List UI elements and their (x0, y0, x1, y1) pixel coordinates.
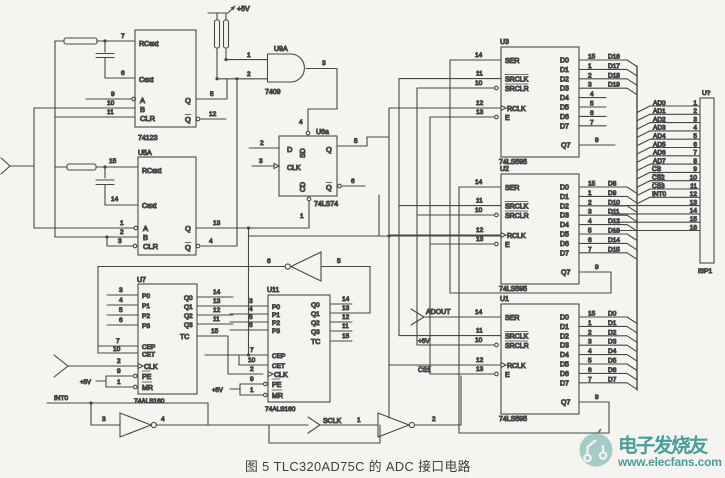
svg-text:D0: D0 (608, 311, 617, 318)
svg-text:14: 14 (111, 196, 119, 203)
svg-text:U9A: U9A (274, 46, 288, 53)
svg-text:12: 12 (342, 314, 350, 321)
svg-text:D7: D7 (560, 250, 569, 257)
wire RCLK trunk x389 (388, 108, 390, 418)
wire SCLK to inverter U8B (320, 424, 378, 426)
svg-text:74LS595: 74LS595 (499, 159, 527, 166)
svg-text:12: 12 (476, 227, 484, 234)
wire CLK input pin 3 (252, 165, 274, 167)
U11 pin Q1 13 to inverter input (330, 312, 370, 314)
svg-text:D0: D0 (560, 315, 569, 322)
wire Qbar pin 4 (200, 245, 237, 247)
svg-text:4: 4 (590, 91, 594, 98)
counter U7 74ALS160 box (138, 284, 197, 394)
wire enable trunk x98 (97, 267, 99, 354)
svg-text:6: 6 (588, 237, 592, 244)
svg-text:14: 14 (213, 289, 221, 296)
svg-text:5: 5 (588, 228, 592, 235)
wire Q output pin 13 to FF CD (196, 227, 309, 229)
monostable U5B 74123 box (135, 30, 196, 127)
svg-text:3: 3 (588, 209, 592, 216)
U1 pin RCLK 12 (389, 364, 501, 366)
svg-text:D15: D15 (608, 246, 620, 253)
ADOUT source chevron (411, 309, 424, 325)
svg-text:3: 3 (588, 339, 592, 346)
svg-text:5: 5 (249, 314, 253, 321)
svg-text:2: 2 (120, 229, 124, 236)
svg-text:4: 4 (299, 119, 303, 126)
svg-text:U3: U3 (500, 39, 509, 46)
svg-text:CD: CD (300, 182, 307, 192)
svg-text:2: 2 (693, 108, 697, 115)
wire PE-MR tie (239, 384, 241, 395)
svg-text:11: 11 (107, 109, 114, 116)
inverter U8A (91, 424, 120, 426)
wire Qbar pin 12 (200, 118, 226, 120)
svg-text:P2: P2 (272, 320, 280, 327)
bubble S input (306, 131, 310, 135)
inverter U8B (378, 413, 409, 437)
svg-text:16: 16 (690, 224, 698, 231)
svg-text:P0: P0 (272, 304, 280, 311)
svg-text:13: 13 (213, 298, 221, 305)
svg-text:14: 14 (475, 52, 483, 59)
svg-text:ISP1: ISP1 (698, 268, 712, 275)
svg-text:RCext: RCext (139, 41, 159, 48)
svg-text:D19: D19 (608, 82, 620, 89)
svg-text:U6a: U6a (316, 129, 329, 136)
wire from y238 rail down to CEP (248, 236, 250, 355)
svg-text:AD3: AD3 (653, 125, 666, 132)
svg-text:74LS595: 74LS595 (499, 416, 527, 423)
svg-text:6: 6 (588, 367, 592, 374)
wire INT0 down to inverter (90, 403, 92, 425)
U11 pin Q0 14 (330, 303, 352, 305)
svg-text:9: 9 (595, 394, 599, 401)
wire PE-MR tie (105, 376, 107, 387)
svg-text:U?: U? (702, 90, 711, 97)
U2 Q7 wire to U3 SER (579, 271, 611, 273)
svg-text:P0: P0 (142, 293, 150, 300)
svg-text:7: 7 (250, 347, 254, 354)
U11 pin Q2 12 (330, 321, 352, 323)
wire x208 down (207, 403, 209, 425)
svg-text:1: 1 (117, 379, 121, 386)
wire rail y238 from U5A Q (248, 228, 250, 236)
wire R3 down to AND pin1 row (225, 48, 227, 60)
U7 pin MR (106, 386, 133, 388)
svg-text:3: 3 (588, 82, 592, 89)
svg-text:SRCLR: SRCLR (505, 86, 529, 93)
bubble Qbar output (196, 244, 200, 248)
wire return loop below (269, 425, 380, 443)
resistor R2 (216, 13, 218, 20)
SCLK source chevron (308, 417, 320, 433)
svg-text:5: 5 (210, 91, 214, 98)
svg-text:TC: TC (180, 334, 189, 341)
svg-text:D6: D6 (560, 241, 569, 248)
wire cascade U2Q7 to U3 SER x450 (449, 60, 451, 293)
svg-text:12: 12 (209, 111, 217, 118)
svg-text:14: 14 (475, 179, 483, 186)
svg-text:PE: PE (142, 374, 152, 381)
inverter U6B (291, 252, 321, 281)
wire AND input 1 (226, 59, 267, 61)
svg-text:SRCLK: SRCLK (505, 334, 529, 341)
wire inverter output pin 6 to U7 enable (98, 266, 285, 268)
wire D input pin 2 (249, 147, 279, 149)
svg-text:5: 5 (354, 138, 358, 145)
svg-text:11: 11 (342, 323, 349, 330)
svg-text:7: 7 (693, 150, 697, 157)
svg-text:D3: D3 (560, 343, 569, 350)
svg-text:6: 6 (590, 110, 594, 117)
svg-text:CLK: CLK (287, 165, 301, 172)
svg-text:1: 1 (120, 220, 124, 227)
svg-text:B: B (143, 233, 148, 242)
svg-text:4: 4 (161, 416, 165, 423)
wire input to node (10, 165, 34, 167)
bus vertical (636, 66, 638, 390)
svg-text:CEP: CEP (142, 344, 155, 351)
svg-text:5: 5 (590, 101, 594, 108)
svg-text:13: 13 (476, 236, 484, 243)
wire trunk x370 Qbar to U11 Q1 (369, 267, 371, 314)
svg-text:14: 14 (690, 208, 698, 215)
U2 pin SRCLR 10 (417, 214, 494, 216)
svg-text:CET: CET (272, 363, 285, 370)
svg-text:U1: U1 (500, 296, 509, 303)
U1 pin SRCLK 11 (399, 335, 501, 337)
svg-text:Q: Q (326, 183, 332, 192)
svg-text:12: 12 (476, 357, 484, 364)
svg-text:P2: P2 (142, 313, 150, 320)
svg-text:D2: D2 (560, 203, 569, 210)
svg-text:Cext: Cext (142, 203, 156, 210)
svg-text:D6: D6 (560, 114, 569, 121)
bubble Qbar output (338, 184, 342, 188)
svg-text:10: 10 (475, 80, 483, 87)
svg-text:A: A (140, 96, 145, 105)
svg-text:P1: P1 (272, 312, 280, 319)
svg-text:10: 10 (690, 175, 698, 182)
svg-text:14: 14 (475, 309, 483, 316)
svg-text:12: 12 (690, 191, 698, 198)
wire CLR pin 11 (55, 116, 135, 118)
svg-text:3: 3 (693, 116, 697, 123)
wire vertical trunk x55 (54, 41, 56, 237)
svg-text:1: 1 (300, 213, 304, 220)
U11 pin MR (240, 394, 263, 396)
svg-text:AD0: AD0 (653, 100, 666, 107)
svg-text:D7: D7 (608, 376, 617, 383)
svg-text:A: A (143, 224, 148, 233)
svg-text:15: 15 (342, 333, 350, 340)
resistor R4 (67, 164, 96, 170)
svg-text:Q2: Q2 (311, 320, 320, 327)
svg-text:2: 2 (588, 329, 592, 336)
svg-text:E: E (505, 242, 510, 249)
U7 Q0 pin 14 (197, 296, 233, 298)
svg-text:D4: D4 (560, 95, 569, 102)
svg-text:13: 13 (476, 366, 484, 373)
svg-text:D4: D4 (560, 222, 569, 229)
U7 pin CEP (98, 345, 138, 347)
svg-text:D3: D3 (608, 339, 617, 346)
wire INT0 (47, 402, 208, 404)
connector pin 15 wire (612, 221, 700, 223)
bubble CD input (307, 197, 311, 201)
net AD1 to connector pin 2 (637, 114, 650, 121)
svg-text:D5: D5 (560, 105, 569, 112)
svg-text:13: 13 (342, 305, 350, 312)
svg-text:Q: Q (185, 96, 191, 105)
svg-text:3: 3 (259, 158, 263, 165)
svg-text:5: 5 (337, 258, 341, 265)
svg-text:Q: Q (185, 243, 191, 252)
svg-text:D8: D8 (608, 181, 617, 188)
U7 pin CET (98, 352, 138, 354)
net AD5 to connector pin 6 (637, 148, 650, 155)
svg-text:SER: SER (505, 315, 519, 322)
svg-text:D3: D3 (560, 213, 569, 220)
monostable U5A 74123 box (138, 157, 196, 255)
svg-text:D0: D0 (560, 58, 569, 65)
svg-text:6: 6 (119, 317, 123, 324)
svg-text:74LS595: 74LS595 (499, 286, 527, 293)
net AD3 to connector pin 4 (637, 131, 650, 138)
svg-text:D5: D5 (608, 358, 617, 365)
U2 pin SER 14 (459, 186, 501, 188)
svg-text:11: 11 (476, 198, 483, 205)
U11 pin CLK arrow (268, 372, 273, 377)
svg-text:9: 9 (117, 368, 121, 375)
svg-text:AD4: AD4 (653, 133, 666, 140)
svg-text:10: 10 (248, 357, 256, 364)
svg-text:ADOUT: ADOUT (426, 309, 451, 316)
svg-text:U5A: U5A (138, 150, 152, 157)
svg-text:SRCLR: SRCLR (505, 213, 529, 220)
wire B pin 10 (34, 107, 135, 109)
svg-text:4: 4 (588, 348, 592, 355)
svg-text:AD5: AD5 (653, 141, 666, 148)
U7 P3 pin 6 (107, 324, 138, 326)
U11 pin CET (238, 355, 240, 365)
svg-text:D1: D1 (560, 324, 569, 331)
svg-text:5: 5 (119, 307, 123, 314)
svg-text:74LS74: 74LS74 (314, 201, 338, 208)
svg-text:4: 4 (249, 306, 253, 313)
svg-text:B: B (140, 105, 145, 114)
svg-text:2: 2 (260, 140, 264, 147)
svg-text:D17: D17 (608, 63, 620, 70)
U1 Q7 wire to U2 SER (580, 401, 609, 403)
input connector chevron (1, 158, 10, 174)
svg-text:E: E (505, 115, 510, 122)
svg-text:AD2: AD2 (653, 116, 666, 123)
svg-text:9: 9 (693, 166, 697, 173)
+5V to U7 PE/MR (96, 380, 106, 382)
svg-text:D16: D16 (608, 54, 620, 61)
svg-text:1: 1 (588, 63, 592, 70)
svg-text:PE: PE (272, 382, 282, 389)
svg-text:E: E (505, 372, 510, 379)
capacitor C1 (104, 41, 106, 52)
counter U11 74ALS160 box (268, 295, 330, 402)
wire SRCLR trunk x417 (416, 88, 418, 345)
svg-text:7409: 7409 (265, 89, 281, 96)
svg-text:CS2: CS2 (652, 175, 665, 182)
net AD4 to connector pin 5 (637, 139, 650, 146)
svg-text:12: 12 (476, 100, 484, 107)
svg-text:SD: SD (300, 148, 307, 158)
svg-text:D2: D2 (608, 329, 617, 336)
svg-text:2: 2 (247, 71, 251, 78)
+5V supply (208, 12, 228, 14)
svg-text:RCLK: RCLK (507, 106, 526, 113)
flip-flop U6a box (279, 136, 337, 196)
svg-text:74123: 74123 (138, 135, 158, 142)
svg-text:D2: D2 (560, 76, 569, 83)
svg-text:Q2: Q2 (184, 313, 193, 320)
svg-text:D3: D3 (560, 86, 569, 93)
svg-text:D14: D14 (608, 237, 620, 244)
svg-text:D1: D1 (560, 67, 569, 74)
svg-text:P1: P1 (142, 303, 150, 310)
watermark logo circle (580, 429, 613, 467)
svg-text:Q0: Q0 (184, 295, 193, 302)
wire inverter input pin 5 (321, 266, 370, 268)
bubble A input (132, 97, 136, 101)
svg-text:9: 9 (250, 376, 254, 383)
U7 P1 pin 4 (107, 304, 138, 306)
U3 Q7 stub pin 9 (579, 144, 615, 146)
svg-text:D5: D5 (560, 362, 569, 369)
capacitor C2 (104, 167, 106, 178)
svg-text:+5V: +5V (212, 388, 223, 394)
net INT0 to connector pin 12 (637, 197, 650, 204)
wire R1 to RCext pin 7 (97, 40, 135, 42)
svg-text:10: 10 (475, 337, 483, 344)
wire vertical trunk x34 (33, 108, 35, 228)
svg-text:Q7: Q7 (561, 270, 570, 277)
svg-text:Q7: Q7 (561, 400, 570, 407)
svg-text:D5: D5 (560, 232, 569, 239)
svg-text:10: 10 (113, 346, 121, 353)
wire CD pin 1 from U5A Q (308, 201, 310, 228)
svg-text:AD7: AD7 (653, 158, 666, 165)
svg-text:5: 5 (588, 358, 592, 365)
svg-text:13: 13 (690, 199, 698, 206)
svg-text:9: 9 (111, 91, 115, 98)
U1 pin E 13 (430, 373, 494, 375)
U7 Q1 pin 13 (197, 305, 233, 307)
U2 pin E 13 (430, 243, 494, 245)
U3 pin SRCLK 11 (399, 78, 501, 80)
U11 P2 pin 5 (230, 321, 268, 323)
svg-text:1: 1 (693, 100, 697, 107)
+5V to U11 PE/MR (230, 388, 240, 390)
wire A pin 1 (34, 227, 134, 229)
svg-text:9: 9 (595, 264, 599, 271)
svg-text:CS1: CS1 (418, 367, 431, 374)
svg-text:+5V: +5V (237, 6, 250, 13)
svg-text:D6: D6 (608, 367, 617, 374)
svg-text:D4: D4 (608, 348, 617, 355)
U3 pin E 13 (430, 116, 494, 118)
svg-text:13: 13 (213, 220, 221, 227)
U11 P0 pin 3 (230, 305, 268, 307)
U11 P1 pin 4 (230, 313, 268, 315)
svg-text:2: 2 (117, 358, 121, 365)
svg-text:2: 2 (588, 72, 592, 79)
svg-text:CS3: CS3 (652, 183, 665, 190)
svg-text:74ALS160: 74ALS160 (265, 406, 296, 413)
svg-text:D0: D0 (560, 185, 569, 192)
svg-text:15: 15 (588, 311, 596, 318)
bubble Qbar output (196, 117, 200, 121)
svg-text:Q: Q (185, 224, 191, 233)
svg-text:D1: D1 (560, 194, 569, 201)
svg-text:9: 9 (595, 137, 599, 144)
wire U7 TC to U11 CLK (227, 336, 229, 374)
connector pin 16 wire (612, 230, 700, 232)
U3 pin SRCLR 10 (417, 87, 494, 89)
wire inverter U8B output pin 2 (415, 424, 462, 426)
svg-text:Q: Q (326, 145, 332, 154)
wire to FF S input pin 4 (307, 109, 309, 131)
svg-text:RCext: RCext (142, 168, 162, 175)
svg-text:14: 14 (342, 296, 350, 303)
svg-text:CLK: CLK (144, 364, 158, 371)
svg-text:7: 7 (590, 119, 594, 126)
svg-text:U7: U7 (137, 277, 146, 284)
net AD7 to connector pin 8 (637, 164, 650, 171)
U11 pin TC 15 (330, 340, 352, 342)
wire AND output pin 3 (306, 68, 337, 70)
bubble inverter output (285, 264, 290, 269)
U3 pin RCLK 12 (389, 107, 501, 109)
svg-text:1: 1 (250, 387, 254, 394)
wire Q output pin 5 (337, 145, 367, 147)
wire B pin 2 (55, 236, 138, 238)
svg-text:15: 15 (211, 328, 219, 335)
svg-text:U2: U2 (500, 166, 509, 173)
svg-text:11: 11 (476, 328, 483, 335)
U7 pin PE (106, 375, 133, 377)
svg-text:3: 3 (322, 60, 326, 67)
svg-text:SRCLK: SRCLK (505, 204, 529, 211)
U11 P3 pin 6 (230, 329, 268, 331)
wire R2 down to AND pin2 row (216, 48, 218, 79)
U7 Q3 pin 11 (197, 323, 233, 325)
connector U4 ISP1 box (700, 98, 714, 263)
svg-text:10: 10 (475, 207, 483, 214)
svg-text:D11: D11 (608, 209, 620, 216)
svg-text:Q7: Q7 (561, 143, 570, 150)
svg-text:2: 2 (432, 416, 436, 423)
svg-text:1: 1 (588, 190, 592, 197)
U7 pin TC 15 (197, 335, 228, 337)
svg-text:4: 4 (588, 218, 592, 225)
svg-text:11: 11 (690, 183, 697, 190)
svg-text:6: 6 (267, 258, 271, 265)
svg-text:P3: P3 (272, 328, 280, 335)
wire AND input 2 (217, 78, 267, 80)
svg-text:INT0: INT0 (54, 395, 68, 402)
svg-text:D1: D1 (608, 320, 617, 327)
svg-text:11: 11 (213, 316, 220, 323)
